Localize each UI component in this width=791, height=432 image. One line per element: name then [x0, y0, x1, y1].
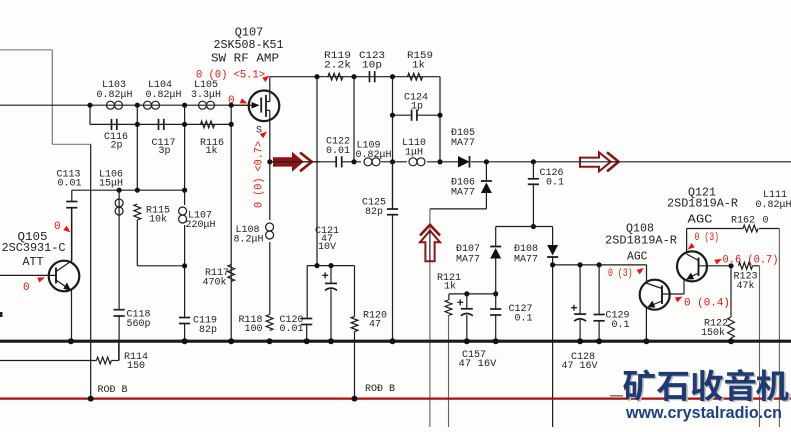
- svg-text:0: 0: [23, 282, 30, 294]
- node junction (317,266): [314, 263, 319, 268]
- svg-text:8.2μH: 8.2μH: [234, 235, 264, 246]
- node junction (731,266): [728, 263, 733, 268]
- svg-text:2SC3931-C: 2SC3931-C: [2, 241, 66, 255]
- capacitor C123: [369, 71, 371, 82]
- capacitor C127: [495, 294, 497, 309]
- resistor R119: [328, 73, 343, 80]
- wire vertical x=392.5: [392, 77, 394, 209]
- svg-text:0.01: 0.01: [326, 146, 350, 157]
- svg-text:AGC: AGC: [688, 213, 713, 227]
- svg-text:82p: 82p: [199, 325, 217, 336]
- svg-text:10V: 10V: [318, 242, 336, 253]
- node junction (90,105): [87, 103, 92, 108]
- svg-text:2SK508-K51: 2SK508-K51: [214, 38, 284, 52]
- svg-text:0.1: 0.1: [612, 320, 630, 331]
- wire vertical x=354: [353, 77, 355, 162]
- capacitor C120: [301, 318, 312, 320]
- capacitor C113: [71, 190, 73, 201]
- inductor L108: [269, 162, 271, 315]
- svg-text:MA77: MA77: [451, 138, 475, 149]
- node ground bus (495.7): [493, 338, 499, 344]
- svg-text:1k: 1k: [412, 60, 425, 72]
- node junction (533,162): [531, 159, 536, 164]
- hollow red up arrow: [420, 225, 440, 236]
- inductor L106: [118, 190, 120, 310]
- svg-text:0.01: 0.01: [58, 179, 82, 190]
- node junction L107/R115: [182, 263, 187, 268]
- node junction (496,294): [493, 291, 498, 296]
- solid red arrow: [273, 152, 304, 172]
- svg-text:0 (0) <5.1>: 0 (0) <5.1>: [196, 70, 265, 82]
- node ground bus (392.5): [390, 338, 396, 344]
- svg-text:0.6 (0.7): 0.6 (0.7): [723, 255, 779, 267]
- wire vertical x=137.3: [136, 105, 138, 190]
- node junction (185,190): [182, 188, 187, 193]
- inductor L107: [179, 207, 187, 215]
- svg-text:Đ107: Đ107: [456, 244, 480, 255]
- node junction (392.5,115): [390, 113, 395, 118]
- wire D106 to down line: [430, 208, 487, 210]
- capacitor C126: [532, 162, 534, 179]
- wire long vertical x=90.7 to ROD B: [90, 144, 92, 398]
- capacitor C122: [336, 156, 343, 168]
- watermark kuangshi shouyinji: [623, 369, 788, 401]
- svg-text:2SD1819A-R: 2SD1819A-R: [667, 197, 738, 211]
- red arrow drain: [262, 73, 271, 82]
- node junction (231,105): [229, 103, 234, 108]
- capacitor C116: [111, 119, 113, 130]
- node ground bus (306.7): [304, 338, 310, 344]
- resistor R122: [730, 266, 732, 317]
- inductor L105: [199, 101, 207, 109]
- capacitor C128 electrolytic: [579, 265, 581, 314]
- red arrow Q108 base: [675, 294, 684, 302]
- svg-text:47: 47: [369, 320, 381, 331]
- inductor L110: [407, 158, 427, 166]
- svg-text:Đ108: Đ108: [514, 244, 538, 255]
- red arrow AGC corner: [637, 266, 646, 275]
- node junction (440,115): [437, 113, 442, 118]
- wire R121 row y=293.9: [449, 293, 496, 295]
- node junction (137,105): [135, 103, 140, 108]
- capacitor C121 electrolytic: [330, 266, 332, 284]
- node junction (119,190): [117, 188, 122, 193]
- capacitor C129: [598, 265, 600, 315]
- svg-text:47 16V: 47 16V: [562, 361, 598, 372]
- red arrow node 731: [714, 257, 723, 265]
- resistor R118: [266, 315, 273, 331]
- svg-text:2SD1819A-R: 2SD1819A-R: [605, 234, 677, 248]
- transistor Q121: [677, 251, 707, 281]
- wire L103-L105 line: [90, 104, 249, 106]
- svg-text:10k: 10k: [149, 214, 167, 226]
- wire diode top rail y=226.5: [496, 226, 553, 228]
- svg-text:150: 150: [127, 361, 145, 372]
- svg-text:AGC: AGC: [627, 250, 648, 264]
- wire vertical x=184.6: [184, 105, 186, 190]
- svg-text:3p: 3p: [159, 146, 171, 157]
- svg-text:220μH: 220μH: [186, 220, 216, 231]
- diode D107: [495, 227, 497, 247]
- node ground bus (599.1): [596, 338, 602, 344]
- capacitor C124: [393, 114, 412, 116]
- svg-text:0.1: 0.1: [546, 178, 564, 189]
- wire vertical x=317: [316, 77, 318, 266]
- svg-text:ROĐ B: ROĐ B: [98, 385, 128, 396]
- transistor Q105: [49, 261, 80, 292]
- node junction (392.5,162): [390, 159, 395, 164]
- node junction (486,162): [484, 159, 489, 164]
- power bus ROD B red: [0, 398, 791, 400]
- svg-text:SW RF AMP: SW RF AMP: [211, 52, 279, 66]
- capacitor C157 electrolytic: [466, 294, 468, 309]
- node junction (231,124): [229, 122, 234, 127]
- node ground bus (580.1): [577, 338, 583, 344]
- svg-text:150k: 150k: [701, 327, 725, 339]
- red arrow Q105 base: [37, 275, 46, 283]
- svg-text:47 16V: 47 16V: [459, 359, 497, 370]
- watermark underscore: [610, 395, 623, 397]
- svg-text:82p: 82p: [365, 207, 383, 218]
- svg-text:1μH: 1μH: [405, 148, 423, 159]
- svg-text:MA77: MA77: [514, 255, 538, 266]
- resistor R123: [739, 262, 753, 269]
- capacitor C119: [179, 317, 190, 319]
- svg-text:15μH: 15μH: [99, 179, 123, 190]
- svg-text:MA77: MA77: [456, 255, 480, 266]
- svg-text:0.82μH: 0.82μH: [97, 90, 133, 101]
- svg-text:0 (3): 0 (3): [695, 232, 720, 244]
- resistor R159: [408, 73, 423, 80]
- svg-text:0.82μH: 0.82μH: [756, 200, 791, 211]
- node junction (392.5,77): [390, 74, 395, 79]
- node ROD B mid: [352, 396, 358, 402]
- node ground bus (70.9): [68, 338, 74, 344]
- node ground bus (184.6): [182, 338, 188, 344]
- svg-text:0: 0: [54, 221, 61, 233]
- node junction (533,226): [531, 224, 536, 229]
- resistor R116: [201, 121, 215, 128]
- wire C116 branch corner: [89, 105, 91, 124]
- resistor R114 line: [0, 360, 96, 362]
- resistor R117: [228, 265, 235, 282]
- node junction (580,265): [578, 262, 583, 267]
- node junction (354,162): [351, 159, 356, 164]
- svg-text:1p: 1p: [411, 102, 423, 113]
- node junction (185,105): [182, 103, 187, 108]
- svg-text:www.crystalradio.cn: www.crystalradio.cn: [625, 404, 782, 422]
- svg-text:3.3μH: 3.3μH: [191, 90, 221, 101]
- node junction (354,77): [351, 74, 356, 79]
- svg-text:0: 0: [763, 216, 769, 227]
- svg-text:1k: 1k: [444, 281, 456, 293]
- red arrow gate: [240, 98, 249, 106]
- svg-text:R162: R162: [731, 216, 755, 227]
- hollow red arrow right: [580, 152, 611, 171]
- node junction (599,265): [597, 262, 602, 267]
- diode D105: [458, 156, 471, 168]
- wire main signal line y=161.8: [270, 161, 791, 163]
- svg-text:47k: 47k: [737, 280, 755, 292]
- red arrow Q105 collector: [63, 226, 72, 235]
- wire vertical x=440 R159 down: [439, 77, 441, 162]
- capacitor C125: [392, 162, 394, 209]
- transistor Q107 FET: [249, 91, 280, 122]
- node ground bus (731): [728, 338, 734, 344]
- node junction (317,77): [314, 74, 319, 79]
- watermark shadow: [625, 370, 790, 402]
- resistor R120: [351, 317, 358, 332]
- wire AGC rail y=264.9: [553, 264, 647, 266]
- inductor L109: [361, 158, 381, 166]
- svg-text:0.1: 0.1: [515, 314, 533, 325]
- wire horizontal y=190.2: [72, 189, 185, 191]
- node ground bus (269.6): [267, 338, 273, 344]
- resistor R162: [743, 225, 758, 232]
- svg-text:2.2k: 2.2k: [324, 60, 351, 72]
- wire vertical x=231.2 gate bias: [230, 105, 232, 341]
- capacitor C118: [114, 309, 125, 311]
- svg-text:0 (0) <0.7>: 0 (0) <0.7>: [254, 141, 266, 208]
- diode D108: [552, 227, 554, 246]
- transistor Q108: [640, 280, 670, 310]
- wire C121 row: [307, 265, 354, 267]
- node junction (137,190): [135, 188, 140, 193]
- node junction (467,294): [464, 291, 469, 296]
- svg-text:10p: 10p: [362, 61, 382, 72]
- node ground bus (466.8): [464, 338, 470, 344]
- node ground bus (231.2): [228, 338, 234, 344]
- node junction (331,266): [328, 263, 333, 268]
- svg-text:0.82μH: 0.82μH: [146, 90, 182, 101]
- svg-text:1k: 1k: [206, 145, 218, 157]
- svg-text:ATT: ATT: [23, 255, 44, 269]
- wire R162 rail: [687, 228, 743, 230]
- node junction (440,162): [437, 159, 442, 164]
- node ROD B left: [88, 396, 94, 402]
- inductor L104: [144, 101, 152, 109]
- left edge stub: [0, 312, 3, 317]
- diode D106: [485, 162, 487, 181]
- inductor L103: [107, 101, 115, 109]
- red arrow S pin: [260, 129, 269, 138]
- svg-text:0: 0: [228, 95, 235, 107]
- svg-text:100: 100: [245, 324, 263, 335]
- red arrow Q121 collector: [686, 243, 695, 252]
- node ground bus (331): [328, 338, 334, 344]
- ground bus: [0, 340, 791, 343]
- node junction (552.6,265): [550, 262, 555, 267]
- svg-text:MA77: MA77: [451, 188, 475, 199]
- node junction source tap: [267, 159, 272, 164]
- resistor R121: [445, 300, 452, 316]
- svg-text:0 (3): 0 (3): [608, 268, 633, 280]
- node ground bus (646.4): [643, 338, 649, 344]
- svg-text:0.01: 0.01: [280, 324, 304, 335]
- svg-text:0.82μH: 0.82μH: [356, 150, 392, 161]
- svg-text:560p: 560p: [127, 319, 151, 330]
- wire drain rail y=76.7: [270, 76, 440, 78]
- node junction (137,124): [135, 122, 140, 127]
- resistor R115: [134, 204, 141, 220]
- node junction (185,124): [182, 122, 187, 127]
- svg-text:470k: 470k: [203, 277, 227, 289]
- svg-text:0 (0.4): 0 (0.4): [684, 298, 730, 310]
- svg-text:2p: 2p: [111, 141, 123, 152]
- capacitor C117: [158, 119, 160, 130]
- wire main input line y=105.2: [0, 104, 90, 106]
- svg-text:ROĐ B: ROĐ B: [365, 384, 395, 395]
- wire gray box top-left: [0, 49, 52, 51]
